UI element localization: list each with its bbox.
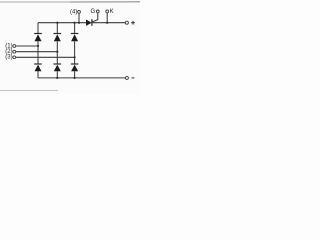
svg-text:(3): (3) [5,55,12,61]
svg-text:G: G [91,9,96,15]
svg-text:(4): (4) [70,10,77,16]
svg-text:K: K [110,9,114,15]
